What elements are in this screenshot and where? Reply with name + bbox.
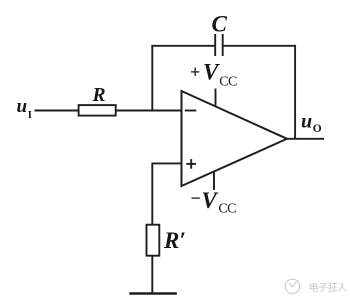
wire capacitor to right vertical (223, 45, 296, 47)
wire -Vcc stub (213, 171, 215, 190)
wire top to capacitor (151, 45, 215, 47)
resistor R (79, 105, 116, 116)
svg-text:u: u (17, 96, 28, 117)
op-amp non-inverting input plus sign (186, 159, 196, 169)
wire down to R' (151, 163, 153, 225)
svg-text:CC: CC (218, 201, 236, 216)
svg-text:V: V (202, 188, 219, 213)
wire +Vcc stub (215, 89, 217, 107)
wire resistor to op-amp inverting input (116, 110, 182, 112)
svg-text:C: C (212, 11, 228, 36)
wire feedback left vertical (151, 45, 153, 112)
wire non-inverting input (152, 162, 181, 164)
op-amp inverting input minus sign (185, 110, 197, 112)
capacitor C (215, 34, 223, 56)
svg-text:−: − (191, 188, 201, 208)
wire R' to ground (151, 256, 153, 294)
op-amp U1 triangle (182, 91, 288, 186)
resistor R' (147, 225, 160, 256)
wire output (287, 138, 324, 140)
svg-text:电子狂人: 电子狂人 (309, 281, 348, 294)
svg-text:CC: CC (219, 75, 237, 90)
wire feedback right vertical (294, 45, 296, 139)
svg-text:R′: R′ (163, 228, 186, 253)
svg-text:u: u (301, 111, 312, 133)
svg-text:+: + (190, 62, 200, 82)
wire input left (35, 110, 79, 112)
svg-text:R: R (92, 85, 106, 106)
ground (129, 292, 177, 294)
watermark logo (285, 279, 299, 293)
svg-text:O: O (313, 123, 322, 135)
svg-text:V: V (203, 60, 220, 85)
svg-text:I: I (28, 110, 32, 121)
